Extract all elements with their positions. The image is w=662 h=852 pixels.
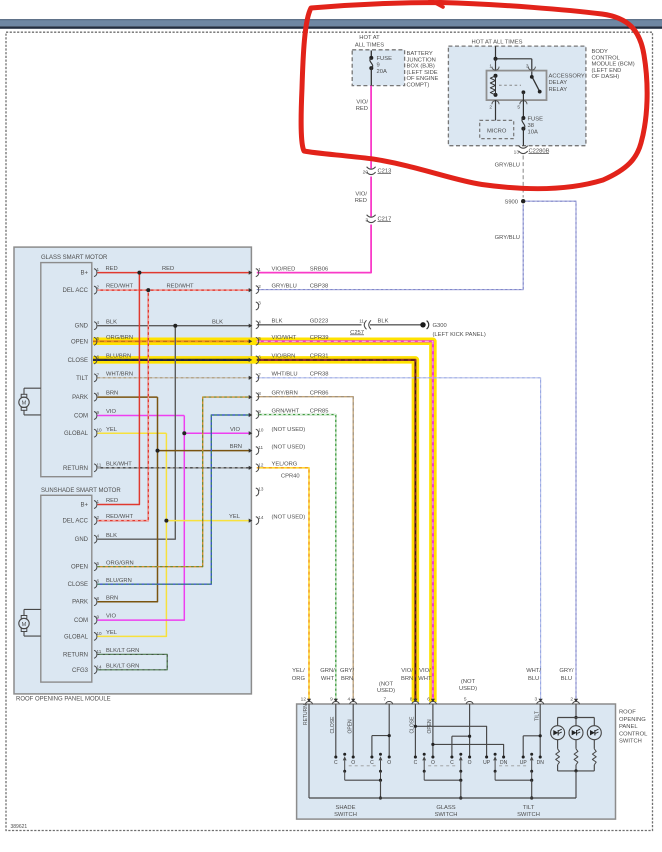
svg-text:C: C xyxy=(334,760,338,766)
svg-text:CPR40: CPR40 xyxy=(281,474,300,480)
svg-text:CONTROL: CONTROL xyxy=(619,731,648,737)
svg-text:RED: RED xyxy=(106,266,118,272)
svg-text:RED/WHT: RED/WHT xyxy=(167,284,195,290)
svg-text:PARK: PARK xyxy=(72,600,88,606)
svg-text:3: 3 xyxy=(535,697,538,703)
svg-text:WHT: WHT xyxy=(321,676,335,682)
svg-text:CFG3: CFG3 xyxy=(72,668,89,674)
svg-text:1: 1 xyxy=(97,267,100,272)
svg-text:BLK/WHT: BLK/WHT xyxy=(106,461,132,467)
svg-text:(LEFT SIDE: (LEFT SIDE xyxy=(407,70,438,76)
svg-text:OF DASH): OF DASH) xyxy=(592,74,620,80)
svg-text:VIO/: VIO/ xyxy=(419,668,431,674)
svg-text:20: 20 xyxy=(363,170,369,176)
svg-text:2: 2 xyxy=(97,285,100,290)
svg-text:RED: RED xyxy=(106,498,118,504)
svg-text:OPEN: OPEN xyxy=(427,719,433,734)
svg-text:OPEN: OPEN xyxy=(71,339,88,345)
svg-text:VIO: VIO xyxy=(230,427,240,433)
svg-text:13: 13 xyxy=(514,150,520,156)
svg-text:ACCESSORY: ACCESSORY xyxy=(549,73,585,79)
svg-text:6: 6 xyxy=(97,579,100,584)
svg-text:(NOT USED): (NOT USED) xyxy=(272,427,306,433)
svg-text:BLK: BLK xyxy=(106,533,117,539)
svg-text:BRN: BRN xyxy=(106,595,118,601)
svg-text:BLU: BLU xyxy=(561,676,572,682)
svg-text:10A: 10A xyxy=(528,130,538,136)
svg-text:BLK: BLK xyxy=(106,319,117,325)
svg-text:VIO/BRN: VIO/BRN xyxy=(272,354,296,360)
svg-text:GD223: GD223 xyxy=(310,319,328,325)
svg-text:9: 9 xyxy=(377,63,380,69)
svg-text:VIO: VIO xyxy=(106,614,116,620)
svg-text:WHT/BLU: WHT/BLU xyxy=(272,372,298,378)
svg-text:(LEFT END: (LEFT END xyxy=(592,68,622,74)
svg-text:YEL: YEL xyxy=(229,514,241,520)
svg-text:5: 5 xyxy=(258,336,261,341)
svg-text:VIO/: VIO/ xyxy=(355,191,367,197)
svg-text:WHT: WHT xyxy=(418,676,432,682)
svg-text:USED): USED) xyxy=(377,688,395,694)
svg-text:11: 11 xyxy=(97,649,102,654)
svg-text:5: 5 xyxy=(97,561,100,566)
svg-text:USED): USED) xyxy=(459,686,477,692)
svg-text:SWITCH: SWITCH xyxy=(619,739,642,745)
svg-text:DELAY: DELAY xyxy=(549,80,568,86)
svg-text:VIO/WHT: VIO/WHT xyxy=(272,335,297,341)
svg-text:6: 6 xyxy=(97,354,100,359)
svg-text:2: 2 xyxy=(570,697,573,703)
svg-text:(NOT: (NOT xyxy=(379,681,394,687)
svg-text:O: O xyxy=(468,760,472,766)
svg-text:SHADE: SHADE xyxy=(336,805,356,811)
svg-text:CLOSE: CLOSE xyxy=(68,582,88,588)
svg-text:BLU: BLU xyxy=(528,676,539,682)
svg-text:11: 11 xyxy=(359,319,364,324)
svg-text:RED/WHT: RED/WHT xyxy=(106,284,134,290)
svg-text:(LEFT KICK PANEL): (LEFT KICK PANEL) xyxy=(433,332,486,338)
svg-text:1: 1 xyxy=(97,499,100,504)
svg-text:BRN: BRN xyxy=(341,676,353,682)
svg-text:BRN: BRN xyxy=(106,391,118,397)
svg-text:1: 1 xyxy=(489,63,492,69)
svg-text:BATTERY: BATTERY xyxy=(407,51,433,57)
svg-text:YEL/: YEL/ xyxy=(292,668,305,674)
svg-text:PANEL: PANEL xyxy=(619,724,638,730)
svg-text:MODULE (BCM): MODULE (BCM) xyxy=(592,62,635,68)
svg-text:4: 4 xyxy=(348,697,351,703)
svg-text:RELAY: RELAY xyxy=(549,87,568,93)
svg-text:38: 38 xyxy=(528,123,534,129)
svg-text:6: 6 xyxy=(258,354,261,359)
svg-text:B+: B+ xyxy=(80,503,88,509)
svg-text:ORG: ORG xyxy=(292,676,306,682)
svg-text:DEL ACC: DEL ACC xyxy=(63,519,89,525)
svg-text:VIO/RED: VIO/RED xyxy=(272,266,296,272)
svg-text:RETURN: RETURN xyxy=(63,466,88,472)
svg-text:S900: S900 xyxy=(504,200,518,206)
svg-text:CPR38: CPR38 xyxy=(310,372,329,378)
svg-text:GND: GND xyxy=(75,324,89,330)
svg-text:VIO/: VIO/ xyxy=(401,668,413,674)
svg-text:3: 3 xyxy=(258,301,261,306)
svg-text:M: M xyxy=(22,401,27,407)
svg-text:RED/WHT: RED/WHT xyxy=(106,514,134,520)
svg-text:2: 2 xyxy=(258,284,261,289)
svg-text:20A: 20A xyxy=(377,69,387,75)
svg-text:10: 10 xyxy=(97,428,103,433)
svg-text:UP: UP xyxy=(520,760,528,766)
svg-text:GLASS SMART MOTOR: GLASS SMART MOTOR xyxy=(41,255,108,261)
svg-text:COM: COM xyxy=(74,414,88,420)
svg-text:4: 4 xyxy=(97,320,100,325)
svg-text:VIO: VIO xyxy=(106,409,116,415)
svg-text:CPR31: CPR31 xyxy=(310,354,329,360)
svg-text:BRN: BRN xyxy=(401,676,413,682)
svg-text:SUNSHADE SMART MOTOR: SUNSHADE SMART MOTOR xyxy=(41,488,121,494)
svg-text:BLK/LT GRN: BLK/LT GRN xyxy=(106,663,139,669)
svg-text:GLOBAL: GLOBAL xyxy=(64,431,89,437)
svg-text:G300: G300 xyxy=(433,323,447,329)
svg-text:GND: GND xyxy=(75,537,89,543)
svg-text:SWITCH: SWITCH xyxy=(517,812,540,818)
svg-text:SWITCH: SWITCH xyxy=(334,812,357,818)
svg-text:BODY: BODY xyxy=(592,49,609,55)
svg-text:9: 9 xyxy=(258,409,261,414)
svg-text:(NOT USED): (NOT USED) xyxy=(272,514,306,520)
svg-text:O: O xyxy=(431,760,435,766)
svg-text:5: 5 xyxy=(97,336,100,341)
svg-text:ORG/GRN: ORG/GRN xyxy=(106,560,134,566)
svg-text:HOT AT: HOT AT xyxy=(359,35,380,41)
svg-text:CLOSE: CLOSE xyxy=(330,716,336,734)
svg-text:10: 10 xyxy=(258,428,264,433)
svg-text:UP: UP xyxy=(483,760,491,766)
svg-text:DN: DN xyxy=(537,760,545,766)
svg-text:SWITCH: SWITCH xyxy=(435,812,458,818)
svg-text:RED: RED xyxy=(355,198,367,204)
svg-text:M: M xyxy=(22,622,27,628)
svg-text:BLU/GRN: BLU/GRN xyxy=(106,578,132,584)
svg-text:FUSE: FUSE xyxy=(528,117,544,123)
svg-text:BLK: BLK xyxy=(378,319,389,325)
svg-text:9: 9 xyxy=(97,615,100,620)
svg-text:GLOBAL: GLOBAL xyxy=(64,634,89,640)
svg-text:6: 6 xyxy=(427,697,430,703)
svg-text:5: 5 xyxy=(517,105,520,111)
svg-text:FUSE: FUSE xyxy=(377,56,393,62)
svg-text:TILT: TILT xyxy=(523,805,535,811)
svg-text:8: 8 xyxy=(410,697,413,703)
svg-text:389621: 389621 xyxy=(11,824,28,830)
svg-text:C: C xyxy=(414,760,418,766)
svg-text:ROOF OPENING PANEL MODULE: ROOF OPENING PANEL MODULE xyxy=(16,696,111,702)
svg-text:(NOT: (NOT xyxy=(461,679,476,685)
svg-text:DEL ACC: DEL ACC xyxy=(63,288,89,294)
svg-text:GRY/BLU: GRY/BLU xyxy=(495,163,520,169)
svg-text:COM: COM xyxy=(74,618,88,624)
svg-text:GRY/: GRY/ xyxy=(340,668,354,674)
svg-text:OPEN: OPEN xyxy=(347,719,353,734)
svg-text:14: 14 xyxy=(258,515,264,520)
svg-text:1: 1 xyxy=(258,267,261,272)
svg-text:PARK: PARK xyxy=(72,395,88,401)
svg-text:BLK: BLK xyxy=(212,319,223,325)
svg-text:ROOF: ROOF xyxy=(619,710,636,716)
svg-text:BOX (BJB): BOX (BJB) xyxy=(407,64,435,70)
svg-text:3: 3 xyxy=(526,63,529,69)
svg-text:8: 8 xyxy=(97,392,100,397)
svg-text:CBP38: CBP38 xyxy=(310,283,328,289)
svg-text:2: 2 xyxy=(489,105,492,111)
svg-text:WHT/: WHT/ xyxy=(526,668,541,674)
svg-text:O: O xyxy=(351,760,355,766)
svg-text:GRN/: GRN/ xyxy=(320,668,335,674)
svg-text:CPR85: CPR85 xyxy=(310,408,329,414)
svg-text:DN: DN xyxy=(500,760,508,766)
svg-text:OF ENGINE: OF ENGINE xyxy=(407,76,439,82)
svg-text:8: 8 xyxy=(258,391,261,396)
svg-text:ORG/BRN: ORG/BRN xyxy=(106,335,133,341)
svg-text:RED: RED xyxy=(162,266,174,272)
svg-text:CONTROL: CONTROL xyxy=(592,55,621,61)
svg-text:BRN: BRN xyxy=(230,444,242,450)
svg-text:ALL TIMES: ALL TIMES xyxy=(355,42,384,48)
svg-text:GLASS: GLASS xyxy=(436,805,455,811)
svg-text:RETURN: RETURN xyxy=(303,704,309,725)
svg-text:11: 11 xyxy=(97,462,102,467)
svg-text:11: 11 xyxy=(258,445,263,450)
svg-text:B+: B+ xyxy=(80,271,88,277)
svg-text:CPR39: CPR39 xyxy=(310,335,329,341)
svg-text:4: 4 xyxy=(258,319,261,324)
svg-text:TILT: TILT xyxy=(534,711,540,721)
svg-text:5: 5 xyxy=(464,697,467,703)
svg-text:O: O xyxy=(387,760,391,766)
svg-text:9: 9 xyxy=(330,697,333,703)
svg-text:BLK: BLK xyxy=(272,319,283,325)
svg-text:(NOT USED): (NOT USED) xyxy=(272,444,306,450)
svg-text:4: 4 xyxy=(97,534,100,539)
svg-text:C: C xyxy=(450,760,454,766)
svg-text:GRY/BLU: GRY/BLU xyxy=(272,283,297,289)
svg-text:GRY/BRN: GRY/BRN xyxy=(272,391,298,397)
svg-text:OPENING: OPENING xyxy=(619,717,646,723)
svg-text:10: 10 xyxy=(97,631,103,636)
svg-text:CPR86: CPR86 xyxy=(310,391,329,397)
svg-text:VIO/: VIO/ xyxy=(356,100,368,106)
svg-text:9: 9 xyxy=(97,410,100,415)
svg-text:YEL/ORG: YEL/ORG xyxy=(272,462,298,468)
svg-text:JUNCTION: JUNCTION xyxy=(407,57,436,63)
svg-text:3: 3 xyxy=(365,218,368,224)
svg-text:TILT: TILT xyxy=(76,376,88,382)
svg-text:7: 7 xyxy=(97,372,100,377)
svg-text:GRN/WHT: GRN/WHT xyxy=(272,408,300,414)
svg-text:8: 8 xyxy=(97,596,100,601)
svg-text:14: 14 xyxy=(97,664,103,669)
svg-text:GRY/BLU: GRY/BLU xyxy=(495,235,520,241)
svg-text:CLOSE: CLOSE xyxy=(68,358,88,364)
svg-text:GRY/: GRY/ xyxy=(559,668,573,674)
svg-text:OPEN: OPEN xyxy=(71,565,88,571)
svg-text:MICRO: MICRO xyxy=(487,128,507,134)
svg-text:12: 12 xyxy=(301,697,307,703)
svg-text:WHT/BRN: WHT/BRN xyxy=(106,371,133,377)
svg-text:SRB06: SRB06 xyxy=(310,266,328,272)
svg-text:7: 7 xyxy=(258,372,261,377)
svg-text:13: 13 xyxy=(258,487,264,492)
svg-text:COMPT): COMPT) xyxy=(407,82,430,88)
svg-text:C: C xyxy=(370,760,374,766)
svg-text:YEL: YEL xyxy=(106,630,118,636)
svg-text:BLK/LT GRN: BLK/LT GRN xyxy=(106,648,139,654)
svg-text:12: 12 xyxy=(258,462,264,467)
svg-text:RETURN: RETURN xyxy=(63,652,88,658)
svg-text:HOT AT ALL TIMES: HOT AT ALL TIMES xyxy=(472,40,523,46)
svg-text:2: 2 xyxy=(97,515,100,520)
svg-text:BLU/BRN: BLU/BRN xyxy=(106,354,131,360)
svg-text:YEL: YEL xyxy=(106,427,118,433)
svg-text:CLOSE: CLOSE xyxy=(410,716,416,734)
svg-text:7: 7 xyxy=(384,697,387,703)
svg-text:RED: RED xyxy=(356,106,368,112)
